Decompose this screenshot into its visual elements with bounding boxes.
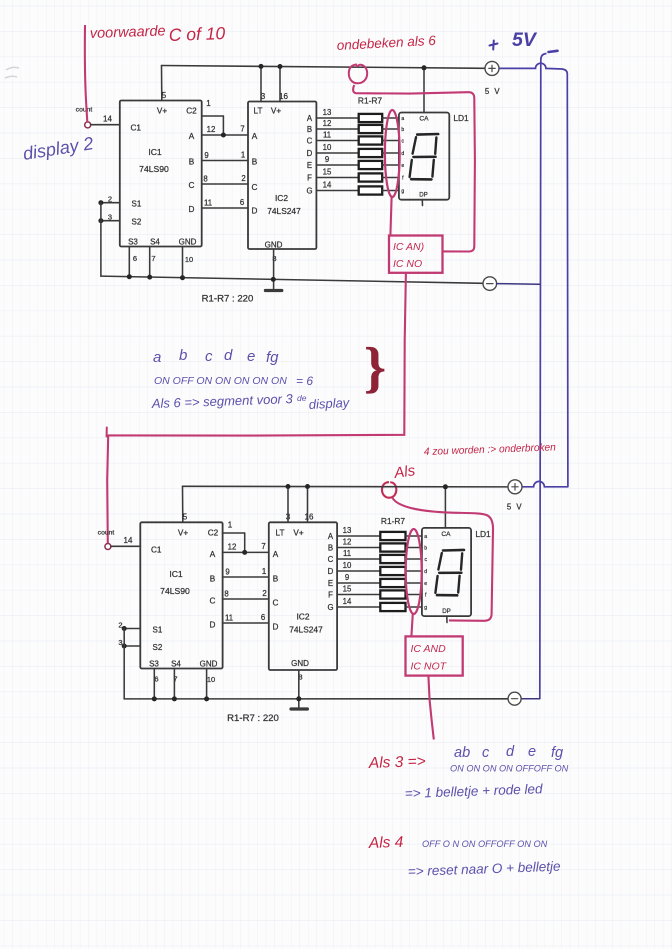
wire: +5V from top + terminal to right bus B (blue) <box>499 63 567 74</box>
wire: IC1 S1 pin2 strap (top) <box>101 202 120 204</box>
svg-text:b: b <box>179 347 187 364</box>
block: IC AND / IC NOT note box (bottom, red pen) <box>406 636 463 675</box>
svg-text:A: A <box>210 550 216 559</box>
resistor R6 (top circuit) <box>359 173 383 181</box>
svg-text:a: a <box>424 534 427 540</box>
svg-text:A: A <box>252 132 258 141</box>
svg-text:IC NO: IC NO <box>393 258 422 270</box>
node: count input terminal (top circuit) <box>76 107 93 128</box>
junction: S1 strap (bottom) <box>122 626 127 631</box>
svg-text:e: e <box>528 744 536 760</box>
wire: IC2 output G pin 14 to resistor R7 (top) <box>316 190 358 192</box>
wire: vertical +5V bus B (blue) <box>566 74 569 487</box>
wire: IC1 S4 pin7 to ground rail (bottom) <box>172 669 177 702</box>
svg-text:b: b <box>401 127 404 133</box>
junction: rail/IC2 pin16 (bottom) <box>305 484 310 489</box>
svg-text:Als 4: Als 4 <box>368 834 404 852</box>
svg-text:de: de <box>297 393 307 403</box>
svg-text:10: 10 <box>207 675 215 684</box>
resistor R1 (top circuit) <box>359 114 383 122</box>
svg-text:9: 9 <box>325 155 329 164</box>
annotation: => 1 belletje + rode led (blue pen) <box>405 781 544 801</box>
svg-text:CA: CA <box>441 531 451 538</box>
svg-text:= 6: = 6 <box>296 374 313 388</box>
svg-text:D: D <box>307 149 313 158</box>
svg-text:74LS90: 74LS90 <box>139 164 169 174</box>
junction: S1 strap (top) <box>98 200 103 205</box>
wire: R3 to display segment c (bottom) <box>406 558 422 560</box>
wire: rail drop to IC2 pin16 V+ (bottom) <box>307 487 309 523</box>
svg-text:g: g <box>424 605 427 611</box>
svg-text:8: 8 <box>203 175 207 184</box>
svg-text:S2: S2 <box>132 218 142 227</box>
ground symbol (bottom circuit) <box>291 707 307 710</box>
wire: magenta swoop around display LD1 (bottom) <box>393 498 494 621</box>
svg-text:count: count <box>98 530 115 537</box>
wire: IC1 C pin8 to IC2 C pin2 (top) <box>202 183 248 185</box>
junction: S2 strap (top) <box>98 218 103 223</box>
annotation: ab c d e fg (blue pen, Als 3 row) <box>454 744 563 761</box>
svg-text:b: b <box>424 546 427 552</box>
svg-text:7: 7 <box>151 254 155 263</box>
resistor R5 (bottom circuit) <box>380 579 405 587</box>
svg-text:11: 11 <box>204 199 212 208</box>
wire: IC2 output G pin 14 to resistor R7 (bottom) <box>337 606 380 608</box>
resistor R6 (bottom circuit) <box>380 590 405 598</box>
svg-text:GND: GND <box>291 659 309 668</box>
svg-text:Als 3 =>: Als 3 => <box>368 753 426 772</box>
svg-text:display: display <box>308 395 351 412</box>
svg-text:10: 10 <box>343 561 352 570</box>
wire: rail drop to IC2 pin3 LT (bottom) <box>287 487 289 523</box>
junction: rail/display CA (top) <box>422 65 427 70</box>
svg-text:2: 2 <box>241 174 245 183</box>
svg-text:14: 14 <box>124 536 133 545</box>
svg-text:E: E <box>307 161 312 170</box>
svg-text:14: 14 <box>343 597 352 606</box>
svg-text:c: c <box>482 745 490 761</box>
annotation: voorwaarde C of 10 (red pen) <box>90 23 226 45</box>
resistor R7 (top circuit) <box>359 186 383 194</box>
svg-text:OFF O N ON OFFOFF ON ON: OFF O N ON OFFOFF ON ON <box>422 839 548 849</box>
label: R1-R7 (bottom resistor bank) <box>381 516 406 526</box>
svg-text:a: a <box>153 349 161 366</box>
IC U2: IC2 74LS247 BCD to 7-seg decoder (top circuit) <box>248 92 316 263</box>
svg-text:IC NOT: IC NOT <box>411 661 448 673</box>
wire: magenta path around display LD1 (top) <box>353 85 475 252</box>
wire: IC2 output D pin 10 to resistor R4 (bottom) <box>337 570 380 572</box>
label: LD1 (bottom display) <box>475 529 491 539</box>
wire: IC2 GND pin8 down (bottom) <box>296 670 301 709</box>
wire: IC1 A pin12 to IC2 A pin7 (bottom) <box>223 551 269 553</box>
smudge: faint pencil mark top-left <box>5 67 19 78</box>
svg-text:d: d <box>224 347 233 364</box>
svg-text:GND: GND <box>200 660 218 669</box>
annotation: curly brace (dark red) <box>364 337 386 399</box>
svg-text:1: 1 <box>241 151 245 160</box>
display LD1 7-segment (bottom circuit) <box>422 528 471 616</box>
svg-text:d: d <box>424 569 427 575</box>
wire: R5 to display segment e (bottom) <box>406 582 422 584</box>
svg-text:15: 15 <box>343 584 352 593</box>
wire: IC1 D pin11 to IC2 D pin6 (bottom) <box>223 622 269 624</box>
svg-text:ON OFF ON ON ON ON ON: ON OFF ON ON ON ON ON <box>154 375 287 387</box>
svg-text:fg: fg <box>266 349 279 366</box>
svg-text:1: 1 <box>228 521 233 530</box>
label: 5V printed (bottom +) <box>507 503 523 512</box>
svg-text:E: E <box>328 579 333 588</box>
wire: count to IC1 pin14 C1 (bottom) <box>111 545 140 547</box>
svg-text:C1: C1 <box>131 124 142 133</box>
annotation: onderbreken als 6 (red pen) <box>336 33 436 53</box>
wire: IC1 S2 pin3 strap (top) <box>101 220 120 222</box>
junction: rail/IC2 pin16 (top) <box>278 64 283 69</box>
annotation: magenta loop on +rail (top) <box>349 65 367 84</box>
svg-text:IC AN): IC AN) <box>393 241 424 253</box>
wire: rail drop to display CA (bottom) <box>444 487 446 528</box>
wire: IC1 C pin8 to IC2 C pin2 (bottom) <box>223 598 269 600</box>
svg-text:11: 11 <box>343 549 351 558</box>
annotation: Als 6 => segment voor 3de display (blue pen) <box>151 391 351 412</box>
svg-text:74LS90: 74LS90 <box>160 586 190 596</box>
svg-text:10: 10 <box>323 143 332 152</box>
wire: rail drop to display CA (top) <box>423 68 425 113</box>
svg-text:C: C <box>328 555 334 564</box>
annotation: overshoot tick at magenta corner <box>106 428 108 437</box>
svg-text:B: B <box>252 158 258 167</box>
svg-text:11: 11 <box>225 614 233 623</box>
wire: IC2 output C pin 11 to resistor R3 (bottom) <box>337 558 380 560</box>
wire: R2 to display segment b (bottom) <box>406 547 422 549</box>
wire: IC2 output B pin 12 to resistor R2 (top) <box>316 128 358 130</box>
svg-text:12: 12 <box>323 119 332 128</box>
svg-text:R1-R7: R1-R7 <box>381 516 406 526</box>
svg-text:LT: LT <box>254 107 263 116</box>
svg-text:V+: V+ <box>178 529 188 538</box>
pin labels: IC1-IC2 interconnect pin numbers (bottom) <box>224 542 266 623</box>
wire: R6 to display segment f (top) <box>382 177 399 179</box>
junction: rail/display CA (bottom) <box>443 484 448 489</box>
wire: R6 to display segment f (bottom) <box>406 594 422 596</box>
value label: R1-R7 : 220 (top) <box>202 294 254 305</box>
svg-text:D: D <box>189 205 195 214</box>
svg-text:5 V: 5 V <box>485 87 501 96</box>
svg-text:12: 12 <box>343 537 352 546</box>
wire: S1/S2 down to ground rail (bottom) <box>123 629 125 699</box>
wire: R1 to display segment a (bottom) <box>406 535 422 537</box>
wire: magenta count line (top, from annotation to count) <box>85 25 87 122</box>
svg-text:14: 14 <box>103 115 112 124</box>
resistor R3 (top circuit) <box>359 136 383 144</box>
pin labels: IC1-IC2 interconnect pin numbers (top) <box>203 125 245 208</box>
svg-text:G: G <box>306 186 312 195</box>
svg-text:3: 3 <box>261 92 266 101</box>
wire: IC2 output A pin 13 to resistor R1 (bottom) <box>337 535 380 537</box>
svg-text:R1-R7 : 220: R1-R7 : 220 <box>227 713 279 724</box>
wire: IC1 C2 pin1 to node A (top) <box>202 116 224 135</box>
svg-text:C2: C2 <box>186 107 197 116</box>
svg-text:14: 14 <box>323 180 332 189</box>
svg-text:12: 12 <box>228 543 237 552</box>
block: IC AND / IC NO note box (top, red pen) <box>389 236 443 273</box>
svg-text:7: 7 <box>240 125 244 134</box>
svg-text:voorwaarde: voorwaarde <box>90 23 166 42</box>
svg-text:C of 10: C of 10 <box>168 23 225 45</box>
wire: IC2 output A pin 13 to resistor R1 (top) <box>316 117 358 119</box>
annotation: ON ON ON ON OFFOFF ON (blue pen) <box>450 764 569 774</box>
svg-text:10: 10 <box>185 255 193 264</box>
wire: rail drop to IC1 pin 5 V+ (top) <box>161 66 163 101</box>
svg-text:B: B <box>328 543 333 552</box>
7-segment digit sketch (bottom display) <box>435 550 464 595</box>
svg-text:6: 6 <box>261 613 265 622</box>
svg-text:C: C <box>307 136 313 145</box>
wire: ground rail (bottom circuit) <box>124 698 508 700</box>
wire: R7 to display segment g (bottom) <box>406 606 422 608</box>
resistor R5 (top circuit) <box>359 161 383 169</box>
svg-text:V+: V+ <box>157 107 167 116</box>
svg-text:g: g <box>401 189 404 195</box>
svg-text:8: 8 <box>224 590 228 599</box>
svg-text:S1: S1 <box>132 200 142 209</box>
annotation: OFF ON ON OFFOFF ON ON (blue pen) <box>422 839 548 849</box>
svg-text:1: 1 <box>206 99 211 108</box>
svg-text:LD1: LD1 <box>475 529 491 539</box>
wire: IC1 B pin9 to IC2 B pin1 (top) <box>202 160 248 162</box>
annotation: magenta ellipse around segment pins (bottom) <box>406 529 422 614</box>
IC U1: IC1 74LS90 decade counter (top circuit) <box>103 91 211 264</box>
resistor R2 (bottom circuit) <box>380 543 405 551</box>
annotation: Als 3 => (red pen) <box>368 753 426 772</box>
wire: IC1 C2 pin1 to node A (bottom) <box>223 533 245 552</box>
wire: IC2 output C pin 11 to resistor R3 (top) <box>316 140 358 142</box>
wire: display DP stub (bottom) <box>446 616 448 622</box>
svg-text:A: A <box>307 114 313 123</box>
svg-text:e: e <box>401 163 404 169</box>
svg-text:74LS247: 74LS247 <box>289 625 323 635</box>
svg-text:CA: CA <box>419 116 429 123</box>
resistor R1 (bottom circuit) <box>380 532 405 540</box>
wire: IC2 output B pin 12 to resistor R2 (bottom) <box>337 547 380 549</box>
wire: rail drop to IC2 pin 16 V+ (top) <box>279 67 281 102</box>
svg-text:5 V: 5 V <box>507 503 523 512</box>
svg-text:F: F <box>328 590 333 599</box>
svg-text:B: B <box>189 158 195 167</box>
wire: R1 to display segment a (top) <box>382 117 399 119</box>
annotation: display 2 (blue pen) <box>21 133 94 164</box>
svg-text:IC1: IC1 <box>169 569 183 579</box>
svg-text:C: C <box>189 181 195 190</box>
svg-text:Als: Als <box>392 462 416 482</box>
wire: magenta from IC-AND box down to mid rail then to count (bottom circuit) <box>107 273 406 544</box>
svg-text:7: 7 <box>261 542 265 551</box>
wire: ground rail (top circuit) <box>101 276 483 283</box>
svg-text:S2: S2 <box>153 643 163 652</box>
svg-text:S4: S4 <box>150 238 160 247</box>
wire: R5 to display segment e (top) <box>382 164 399 166</box>
label: 5V printed (top +) <box>485 87 501 96</box>
svg-text:S3: S3 <box>128 238 138 247</box>
svg-text:}: } <box>364 337 386 399</box>
IC U4: IC2 74LS247 BCD to 7-seg decoder (bottom circuit) <box>269 513 337 682</box>
svg-text:IC2: IC2 <box>296 612 309 622</box>
svg-text:13: 13 <box>323 108 332 117</box>
svg-text:1: 1 <box>262 567 266 576</box>
svg-text:GND: GND <box>179 238 197 247</box>
power terminal + (bottom, 5V) <box>508 480 522 494</box>
svg-text:G: G <box>327 603 333 612</box>
wire: R4 to display segment d (bottom) <box>406 570 422 572</box>
wire: magenta ellipse to IC-AND box (top) <box>390 197 391 236</box>
svg-text:IC1: IC1 <box>148 147 162 157</box>
svg-text:F: F <box>307 173 312 182</box>
svg-text:9: 9 <box>345 573 349 582</box>
annotation: magenta ellipse around segment pins (top) <box>385 110 400 197</box>
svg-text:c: c <box>205 348 213 365</box>
wire: +V top rail (bottom circuit) <box>183 485 509 488</box>
wire: rail drop to IC2 pin 3 LT (top) <box>260 66 262 101</box>
svg-text:13: 13 <box>343 526 352 535</box>
value label: R1-R7 : 220 (bottom) <box>227 713 279 724</box>
wire: IC1 S4 pin7 to ground rail (top) <box>147 247 152 280</box>
svg-text:5V: 5V <box>512 29 538 51</box>
wire: count to IC1 pin14 C1 (top) <box>91 124 120 126</box>
wire: IC2 output E pin 9 to resistor R5 (top) <box>316 164 358 166</box>
svg-text:D: D <box>210 621 216 630</box>
svg-text:C: C <box>252 183 258 192</box>
svg-text:16: 16 <box>305 513 314 522</box>
svg-text:LT: LT <box>276 529 285 538</box>
svg-text:DP: DP <box>442 608 451 615</box>
svg-text:16: 16 <box>279 92 288 101</box>
wire: bottom - terminal to bus A (blue) <box>521 698 540 700</box>
junction: C2/A wire (bottom) <box>242 550 247 555</box>
ground symbol (top circuit) <box>265 289 281 292</box>
svg-text:D: D <box>328 567 334 576</box>
wire: R3 to display segment c (top) <box>382 140 399 142</box>
svg-text:fg: fg <box>551 745 563 761</box>
svg-text:B: B <box>273 575 279 584</box>
IC U3: IC1 74LS90 decade counter (bottom circuit) <box>118 513 232 685</box>
svg-text:74LS247: 74LS247 <box>267 206 301 216</box>
resistor R2 (top circuit) <box>359 125 383 133</box>
wire: magenta stub below IC-NOT box (bottom) <box>428 676 433 740</box>
svg-text:e: e <box>424 581 427 587</box>
wire: IC1 S3 pin6 to ground rail (top) <box>127 247 132 280</box>
wire: display DP stub (top) <box>421 200 423 206</box>
svg-text:C2: C2 <box>208 529 219 538</box>
annotation: red loop on rail (bottom circuit) <box>382 482 396 498</box>
annotation: => reset naar 0 + belletje (blue pen) <box>408 859 561 879</box>
wire: rail drop to IC1 pin5 V+ (bottom) <box>182 486 184 522</box>
svg-text:D: D <box>273 623 279 632</box>
annotation: handwritten - (blue) <box>549 51 558 52</box>
wire: vertical -5V bus A (blue) <box>540 54 547 699</box>
power terminal + (top, 5V) <box>485 61 499 75</box>
svg-text:9: 9 <box>204 151 208 160</box>
wire: IC2 output F pin 15 to resistor R6 (top) <box>316 177 358 179</box>
annotation: ON OFF ON ON ON ON ON = 6 (blue pen) <box>154 374 313 388</box>
svg-text:GND: GND <box>265 241 283 250</box>
svg-text:12: 12 <box>207 125 216 134</box>
svg-text:6: 6 <box>133 254 137 263</box>
svg-text:5: 5 <box>183 513 188 522</box>
svg-text:D: D <box>252 207 258 216</box>
junction: rail/IC2 pin3 (top) <box>259 64 264 69</box>
svg-text:C: C <box>210 597 216 606</box>
wire: IC1 S1 pin2 strap (bottom) <box>124 628 140 630</box>
annotation: 4 zou worden => onderbroken (red pen) <box>424 441 556 458</box>
svg-text:count: count <box>76 107 93 114</box>
svg-text:ab: ab <box>454 745 470 761</box>
svg-text:B: B <box>307 125 312 134</box>
wire: R2 to display segment b (top) <box>382 128 399 130</box>
wire: IC1 GND pin10 to ground rail (top) <box>180 247 185 281</box>
annotation: a b c d e fg (blue pen) <box>153 347 279 366</box>
junction: S2 strap (bottom) <box>122 644 127 649</box>
junction: C2/A wire (top) <box>221 133 226 138</box>
svg-text:A: A <box>189 132 195 141</box>
annotation: handwritten 5V (blue) <box>512 29 538 51</box>
svg-text:V+: V+ <box>293 529 303 538</box>
annotation: Als (red pen) <box>392 462 416 482</box>
svg-text:IC AND: IC AND <box>411 643 447 655</box>
node: count input terminal (bottom circuit) <box>98 530 115 550</box>
svg-text:2: 2 <box>262 589 266 598</box>
svg-text:S1: S1 <box>153 626 163 635</box>
svg-text:V+: V+ <box>271 107 281 116</box>
svg-text:15: 15 <box>323 167 332 176</box>
wire: IC1 GND pin10 to ground rail (bottom) <box>204 669 209 702</box>
svg-text:3: 3 <box>286 513 291 522</box>
resistor R4 (bottom circuit) <box>380 567 405 575</box>
wire: magenta ellipse to IC-AND box (bottom) <box>411 614 412 637</box>
svg-text:R1-R7: R1-R7 <box>358 96 383 106</box>
wire: IC2 output E pin 9 to resistor R5 (bottom) <box>337 582 380 584</box>
svg-text:ON ON ON ON OFFOFF ON: ON ON ON ON OFFOFF ON <box>450 764 569 774</box>
svg-text:C: C <box>273 599 279 608</box>
svg-text:d: d <box>506 744 515 760</box>
power terminal - (top) <box>483 277 497 291</box>
resistor R7 (bottom circuit) <box>380 603 405 611</box>
wire: IC2 output F pin 15 to resistor R6 (bottom) <box>337 594 380 596</box>
wire: bottom + terminal to bus B with hop over bus A (blue) <box>522 481 568 486</box>
wire: IC1 A pin12 to IC2 A pin7 (top) <box>202 134 248 136</box>
wire: R4 to display segment d (top) <box>382 152 399 154</box>
svg-text:B: B <box>210 575 216 584</box>
junction: rail/IC2 pin3 (bottom) <box>286 484 291 489</box>
wire: IC1 S2 pin3 strap (bottom) <box>124 645 140 647</box>
pin labels: IC2 outputs A-G with pin numbers (top) <box>306 108 332 196</box>
wire: +V top rail (top circuit) <box>162 66 486 69</box>
svg-text:A: A <box>273 550 279 559</box>
7-segment digit sketch (top display) <box>410 134 439 179</box>
svg-text:IC2: IC2 <box>275 193 288 203</box>
wire: S1/S2 down to ground rail (top) <box>100 203 102 276</box>
svg-text:S4: S4 <box>171 660 181 669</box>
svg-text:a: a <box>401 116 404 122</box>
wire: IC2 output D pin 10 to resistor R4 (top) <box>316 152 358 154</box>
svg-text:9: 9 <box>225 568 229 577</box>
display LD1 7-segment (top circuit) <box>399 113 449 200</box>
label: LD1 (top display) <box>453 113 469 123</box>
wire: IC1 S3 pin6 to ground rail (bottom) <box>152 669 157 702</box>
svg-text:e: e <box>247 348 255 365</box>
svg-text:LD1: LD1 <box>453 113 469 123</box>
svg-text:11: 11 <box>323 130 331 139</box>
svg-text:6: 6 <box>240 198 244 207</box>
annotation: Als 4 (red pen) <box>368 834 404 852</box>
